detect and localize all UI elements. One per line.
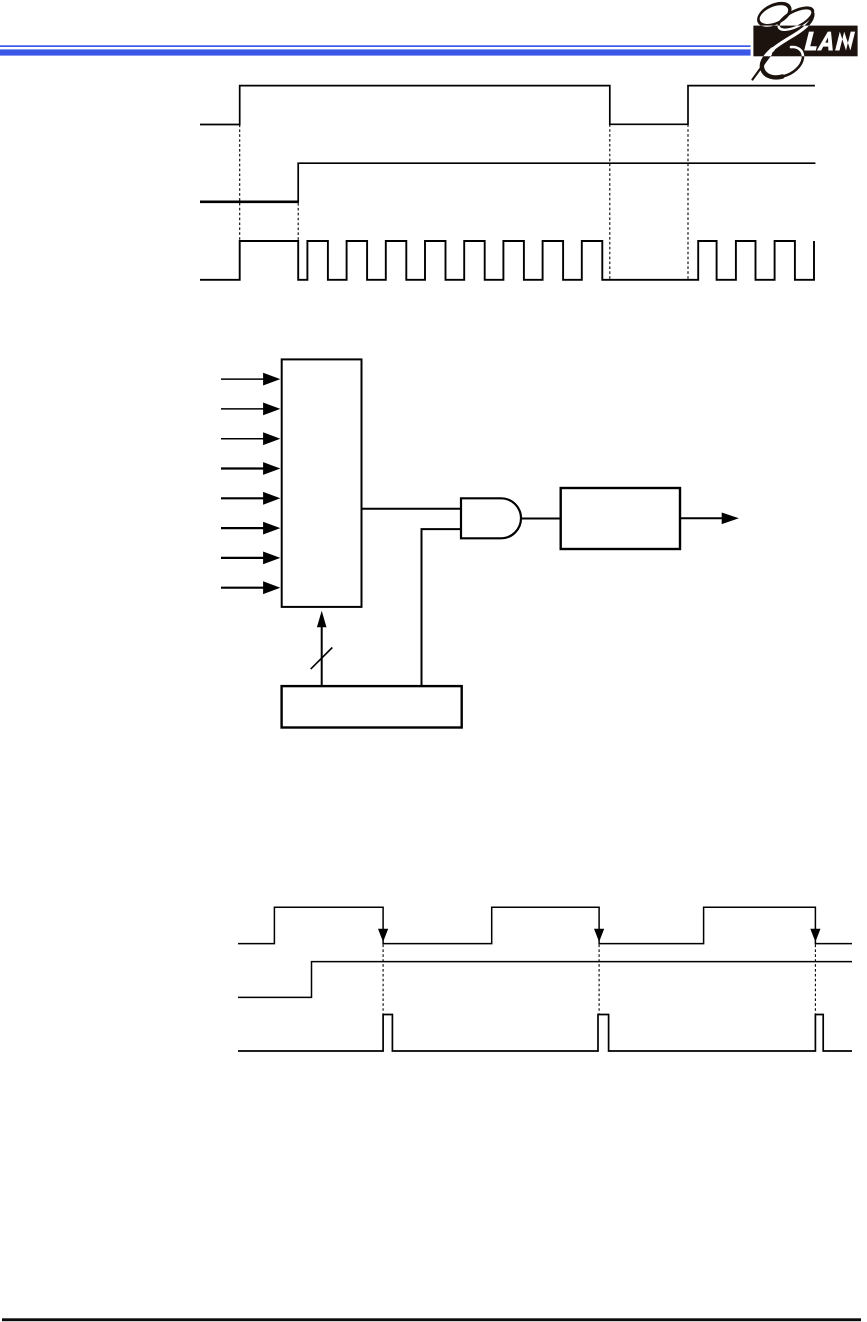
block diagram input arrow 7 <box>221 552 280 565</box>
block diagram input arrow 5 <box>221 492 280 505</box>
timing diagram 2 dotted line 1 <box>382 945 384 1014</box>
timing diagram 2 dotted line 2 <box>598 945 600 1014</box>
block diagram input arrow 6 <box>221 522 280 535</box>
control box rectangle <box>282 686 462 727</box>
AND gate <box>461 498 521 538</box>
timing diagram 1 dotted line at first rising edge <box>239 125 241 242</box>
header rule thin blue line <box>0 45 751 47</box>
timing diagram 1 dotted line at row2 rising edge <box>297 203 299 241</box>
output arrow <box>680 513 739 525</box>
ELAN logo black box <box>753 26 857 57</box>
ELAN logo LAN text <box>804 32 855 51</box>
timing diagram 2 pulse row 3 waveform <box>238 1015 852 1052</box>
timing diagram 1 dotted line at row1 second rising edge <box>687 124 689 279</box>
block diagram input arrow 3 <box>221 432 280 445</box>
timing diagram 2 dotted line 3 <box>814 945 816 1014</box>
block diagram input arrow 1 <box>221 373 280 386</box>
block diagram input register rectangle <box>282 359 362 607</box>
timing diagram 2 signal row 2 waveform <box>238 962 852 998</box>
timing diagram 2 signal row 1 waveform <box>238 907 852 943</box>
timing diagram 1 signal row 2 waveform <box>200 163 815 203</box>
footer rule <box>2 1318 861 1321</box>
timing diagram 1 clock row 3 waveform <box>200 241 814 280</box>
output box rectangle <box>561 488 680 549</box>
header rule thick blue bar <box>0 49 751 55</box>
timing diagram 1 signal row 1 waveform <box>200 86 815 125</box>
wire AND gate to output box <box>521 518 561 520</box>
block diagram input arrow 2 <box>221 403 280 416</box>
timing diagram 1 dotted line at row1 falling edge <box>609 124 611 279</box>
wire control box to AND gate lower input <box>422 529 462 686</box>
timing diagram 2 falling edge arrowhead 3 <box>810 929 820 942</box>
bus width slash <box>311 648 333 670</box>
wire register to AND gate upper input <box>362 508 462 510</box>
ELAN logo script E <box>753 0 817 80</box>
timing diagram 2 falling edge arrowhead 2 <box>594 929 604 942</box>
block diagram input arrow 8 <box>221 581 280 594</box>
timing diagram 2 falling edge arrowhead 1 <box>378 929 388 942</box>
bus arrow control box to register <box>317 611 327 686</box>
block diagram input arrow 4 <box>221 462 280 475</box>
